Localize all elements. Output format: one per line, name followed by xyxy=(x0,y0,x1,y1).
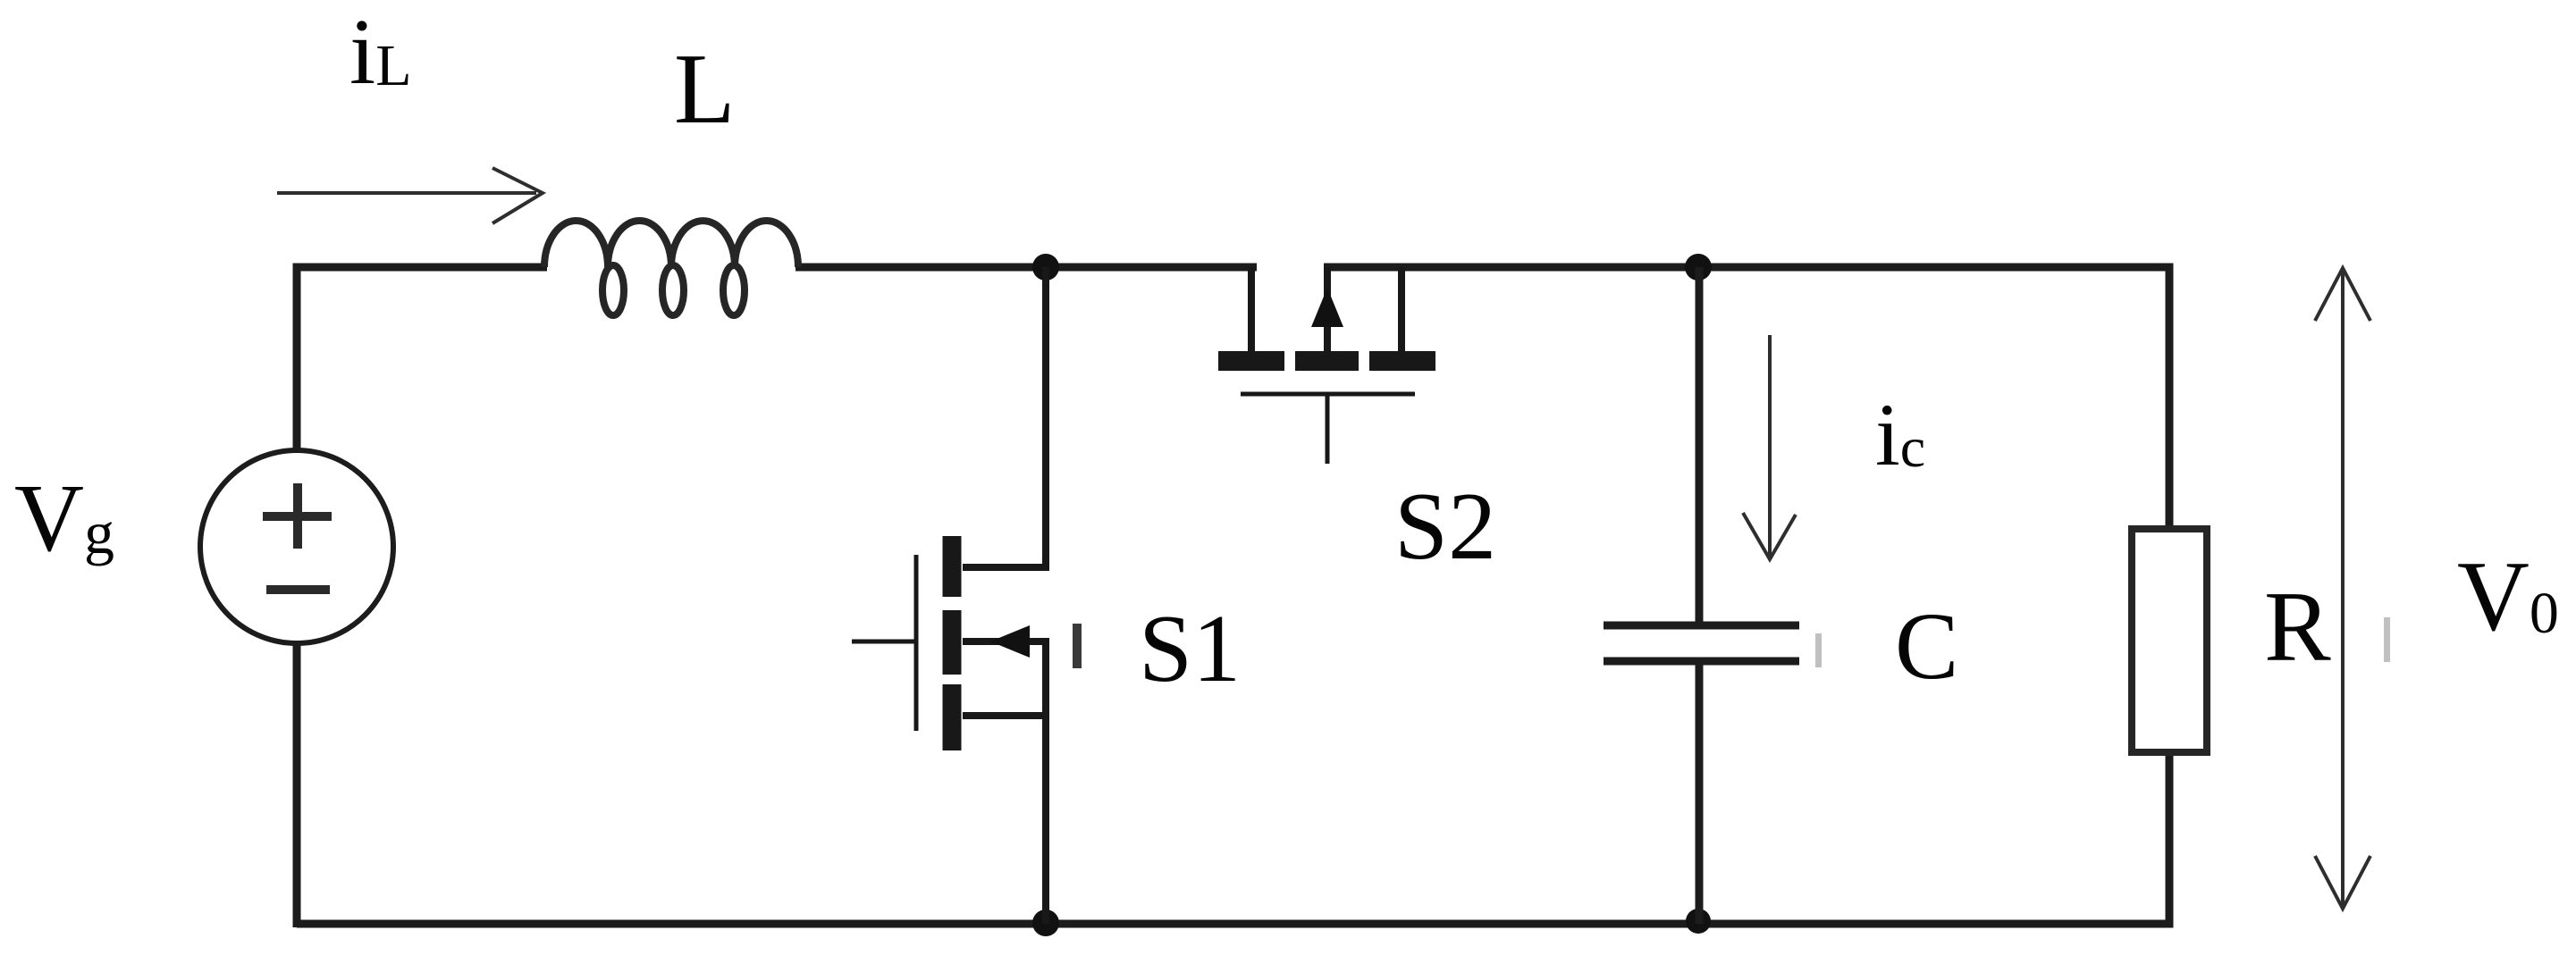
current arrow iL xyxy=(277,168,543,223)
wire left lower (source bottom to ground rail) xyxy=(293,639,301,924)
svg-text:S1: S1 xyxy=(1139,596,1241,702)
resistor R xyxy=(2132,529,2207,752)
S1 channel segments xyxy=(943,536,962,597)
S1 body lead with arrow xyxy=(963,641,1046,924)
S1 gate line xyxy=(914,555,919,731)
wire bottom rail xyxy=(297,750,2169,927)
svg-text:V0: V0 xyxy=(2457,541,2559,652)
wire top rail left (source to inductor) xyxy=(297,267,547,456)
svg-text:L: L xyxy=(674,34,735,145)
capacitor bottom plate xyxy=(1604,658,1799,666)
wire inductor to S2 drain xyxy=(796,264,1257,272)
node dot C (S1 source / ground rail) xyxy=(1032,910,1059,936)
capacitor top wire xyxy=(1696,267,1704,623)
svg-text:Vg: Vg xyxy=(14,465,114,572)
S2 channel segments xyxy=(1218,351,1284,371)
transistor S2 (MOSFET, horizontal) xyxy=(1218,267,1435,464)
S2 body stub xyxy=(1398,267,1405,351)
capacitor top plate xyxy=(1604,622,1799,630)
current arrow ic xyxy=(1743,335,1796,559)
stray tick near capacitor xyxy=(1815,633,1822,667)
S1 source lead xyxy=(963,712,1046,719)
inductor L xyxy=(544,221,798,315)
transistor S1 (MOSFET) xyxy=(852,267,1046,924)
S1 gate lead xyxy=(852,640,914,644)
stray tick near R xyxy=(2384,617,2390,662)
S2 source stub with arrow xyxy=(1324,267,1331,351)
node dot B (S2 source / capacitor top) xyxy=(1685,254,1712,281)
voltage arrow V0 (double-headed) xyxy=(2315,268,2370,909)
svg-text:ic: ic xyxy=(1875,385,1925,484)
svg-text:R: R xyxy=(2264,572,2331,683)
capacitor bottom wire xyxy=(1696,665,1704,924)
wire top rail right (S2 source to output corner) xyxy=(1324,267,2169,531)
node dot A (inductor / S1 drain) xyxy=(1032,254,1059,281)
stray tick near S1 xyxy=(1073,624,1082,668)
capacitor C xyxy=(1604,267,1799,924)
S2 gate lead xyxy=(1326,396,1330,464)
svg-text:S2: S2 xyxy=(1394,474,1496,580)
S2 gate line xyxy=(1241,392,1415,397)
svg-text:iL: iL xyxy=(349,0,412,104)
S1 drain wire xyxy=(963,267,1046,567)
voltage source Vg xyxy=(200,450,393,643)
S2 drain stub xyxy=(1248,267,1255,351)
node dot D (capacitor bottom / ground rail) xyxy=(1686,909,1711,934)
svg-text:C: C xyxy=(1895,594,1958,700)
